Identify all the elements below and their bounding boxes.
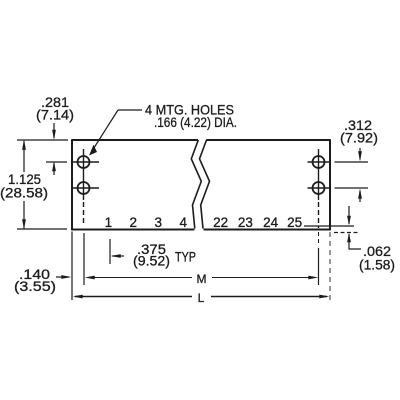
svg-text:.166 (4.22) DIA.: .166 (4.22) DIA. <box>154 115 237 130</box>
svg-text:4: 4 <box>179 215 187 230</box>
svg-text:(3.55): (3.55) <box>14 279 56 294</box>
svg-text:3: 3 <box>154 215 162 230</box>
svg-text:L: L <box>198 291 205 305</box>
svg-text:(7.14): (7.14) <box>36 108 74 123</box>
svg-text:(9.52): (9.52) <box>133 254 170 269</box>
svg-text:(28.58): (28.58) <box>0 186 48 201</box>
svg-text:M: M <box>197 272 207 286</box>
svg-text:24: 24 <box>263 215 279 230</box>
svg-text:25: 25 <box>287 215 302 230</box>
svg-text:1: 1 <box>105 215 113 230</box>
svg-text:(1.58): (1.58) <box>359 258 395 273</box>
svg-text:(7.92): (7.92) <box>340 131 378 146</box>
svg-text:2: 2 <box>130 215 138 230</box>
svg-text:23: 23 <box>238 215 253 230</box>
svg-text:TYP: TYP <box>175 250 196 265</box>
svg-text:22: 22 <box>213 215 228 230</box>
